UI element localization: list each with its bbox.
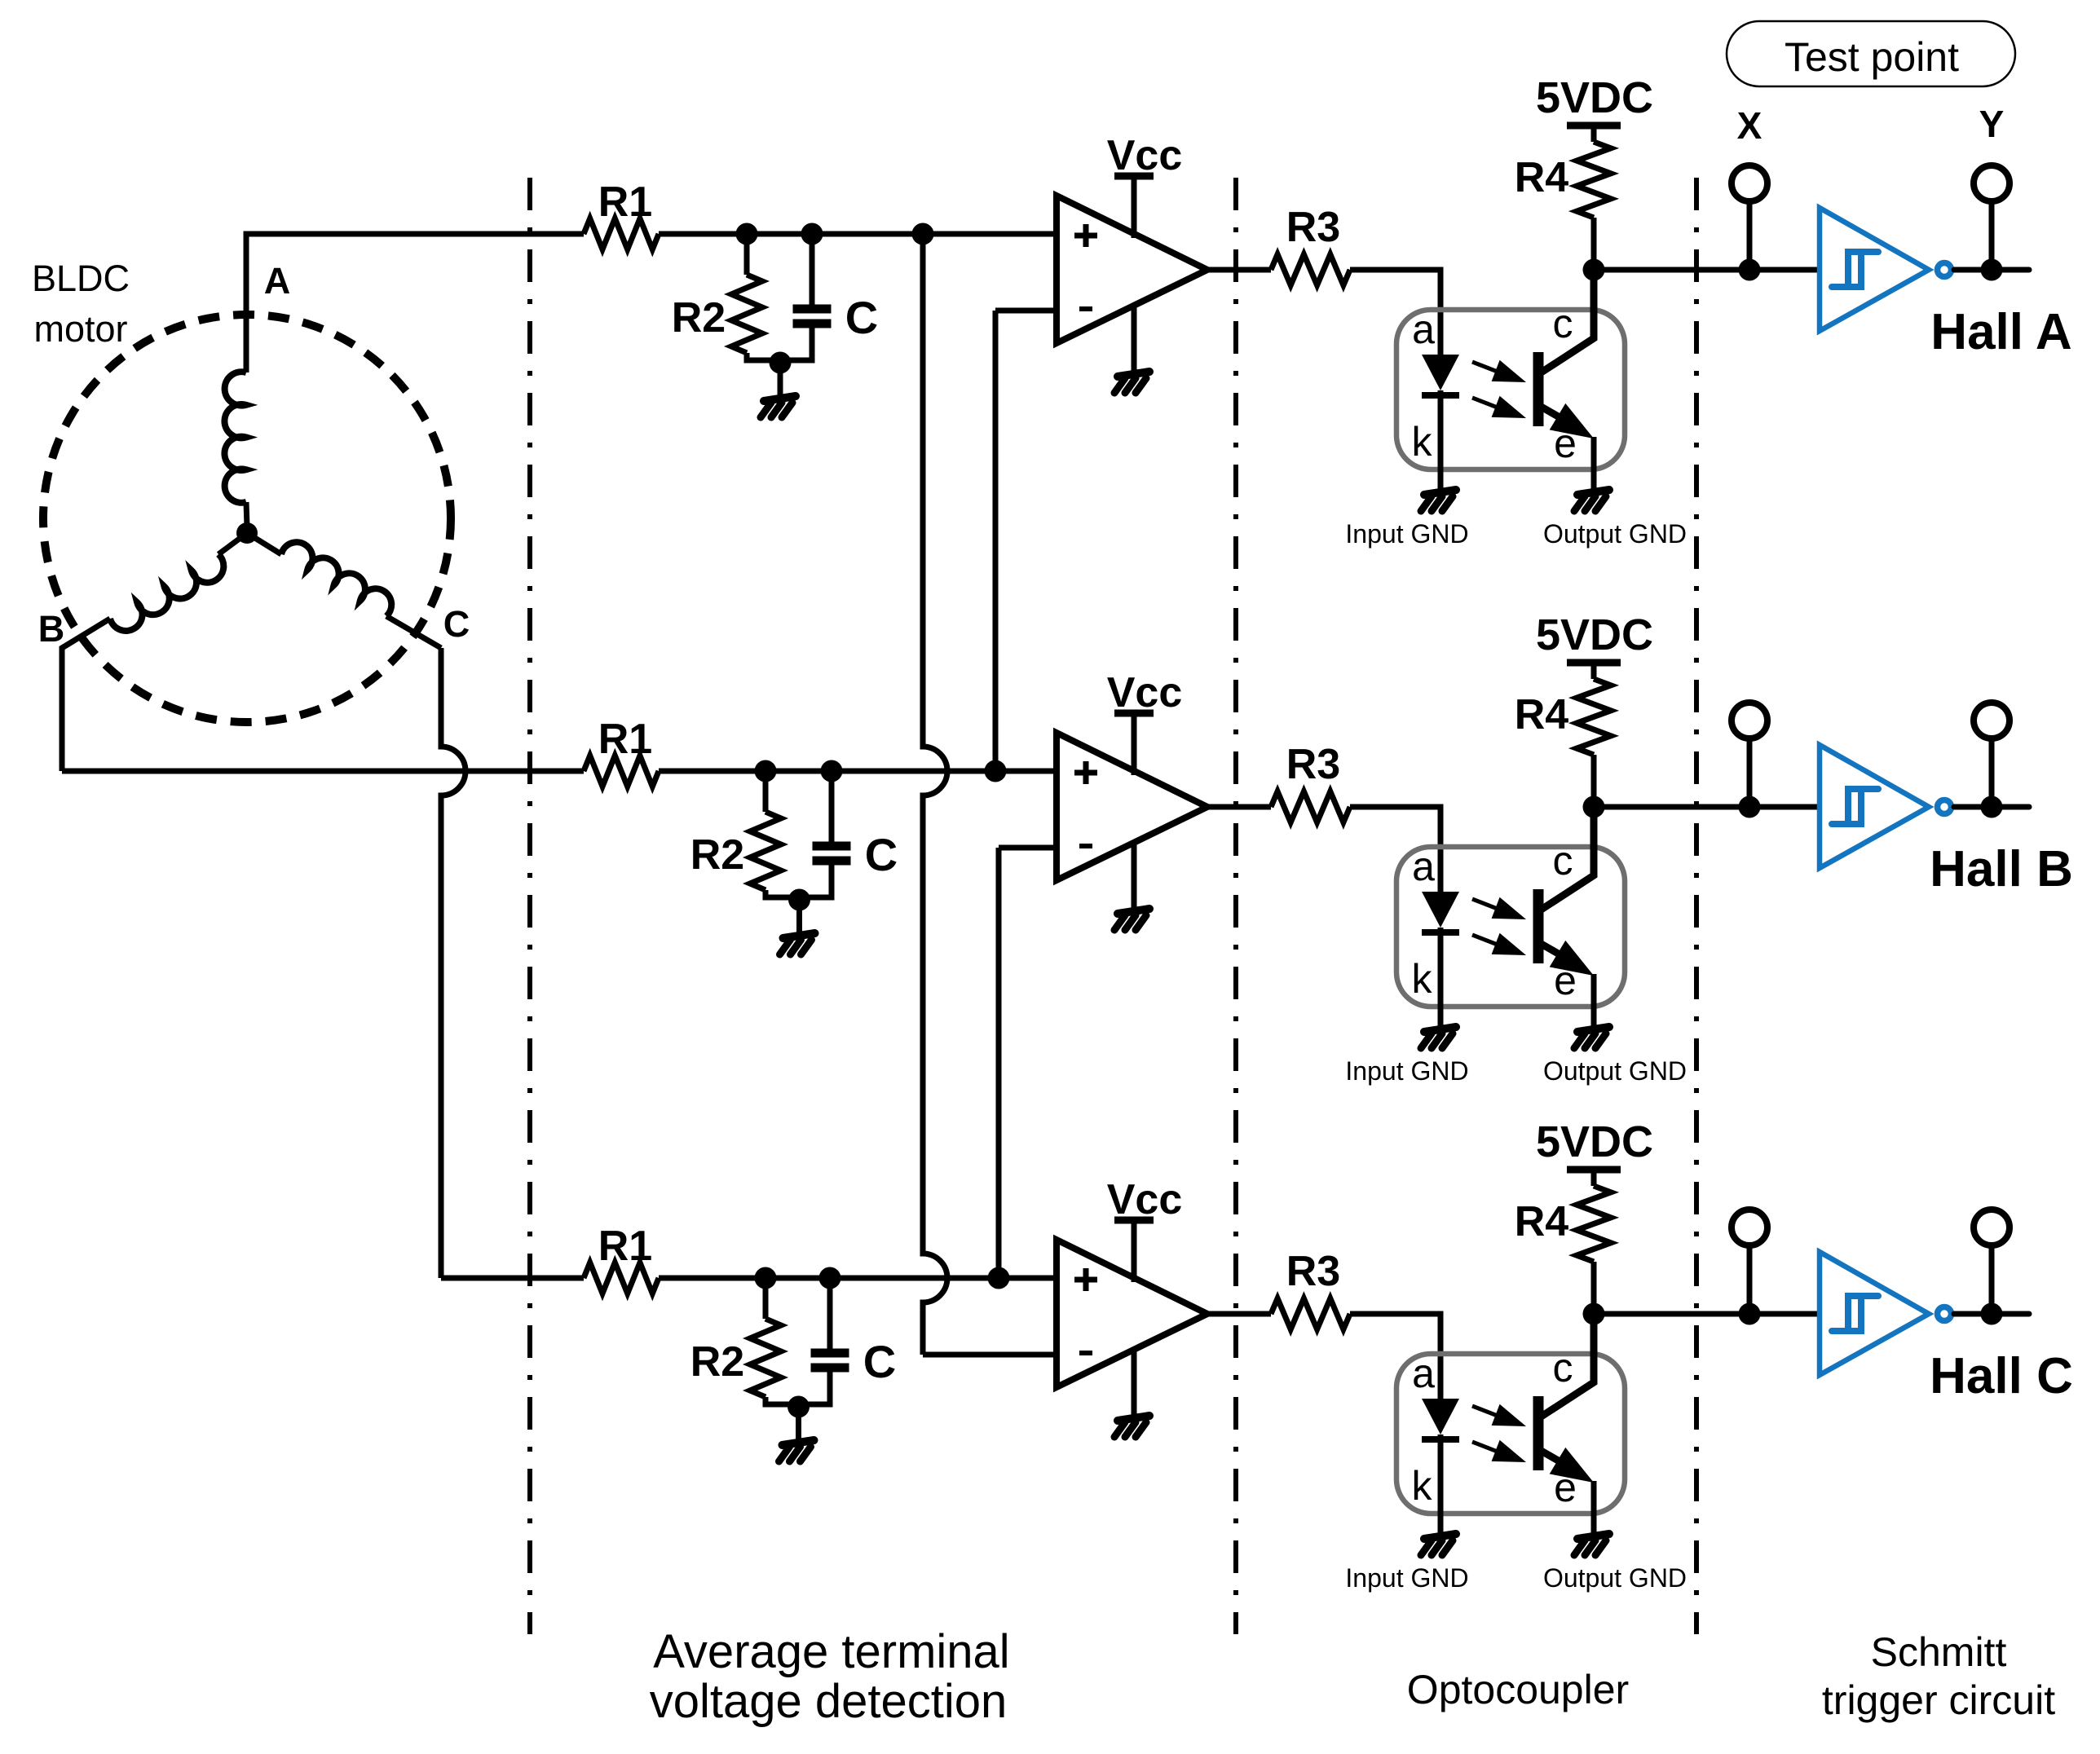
svg-text:Input GND: Input GND [1345,1563,1468,1593]
svg-text:C: C [863,1336,896,1387]
svg-text:R4: R4 [1515,1198,1569,1245]
svg-text:k: k [1412,956,1433,1002]
svg-text:Optocoupler: Optocoupler [1407,1667,1629,1712]
svg-text:a: a [1412,844,1435,889]
svg-text:R3: R3 [1286,741,1340,788]
svg-text:R3: R3 [1286,204,1340,251]
svg-text:c: c [1553,301,1573,346]
svg-text:e: e [1554,1465,1577,1510]
svg-text:Input GND: Input GND [1345,519,1468,549]
svg-text:Vcc: Vcc [1107,132,1183,179]
svg-text:R1: R1 [598,716,652,763]
svg-text:C: C [443,603,470,645]
svg-text:Hall C: Hall C [1930,1348,2073,1404]
svg-text:Vcc: Vcc [1107,669,1183,716]
svg-text:5VDC: 5VDC [1536,1117,1653,1166]
svg-text:motor: motor [33,308,127,350]
svg-text:Average terminal: Average terminal [653,1625,1009,1678]
svg-text:R1: R1 [598,178,652,226]
svg-text:Vcc: Vcc [1107,1176,1183,1223]
svg-text:a: a [1412,1351,1435,1396]
svg-text:e: e [1554,958,1577,1003]
svg-text:R2: R2 [690,1338,744,1386]
svg-text:voltage detection: voltage detection [650,1675,1008,1728]
svg-text:5VDC: 5VDC [1536,73,1653,122]
svg-text:trigger circuit: trigger circuit [1822,1677,2055,1723]
svg-text:Input GND: Input GND [1345,1056,1468,1086]
svg-text:Y: Y [1979,103,2005,145]
svg-text:C: C [845,292,878,343]
svg-text:Schmitt: Schmitt [1871,1629,2007,1675]
svg-text:e: e [1554,421,1577,466]
svg-text:Hall B: Hall B [1930,841,2073,897]
svg-text:A: A [264,260,291,302]
svg-text:Output GND: Output GND [1543,519,1687,549]
svg-text:k: k [1412,419,1433,465]
svg-text:c: c [1553,838,1573,884]
svg-text:Test point: Test point [1785,34,1959,80]
svg-text:BLDC: BLDC [32,258,130,299]
svg-text:R2: R2 [690,831,744,879]
svg-text:Hall A: Hall A [1930,304,2071,360]
svg-text:R4: R4 [1515,154,1569,201]
svg-text:R4: R4 [1515,691,1569,738]
svg-text:R3: R3 [1286,1248,1340,1295]
svg-text:a: a [1412,306,1435,352]
svg-text:5VDC: 5VDC [1536,610,1653,659]
svg-text:Output GND: Output GND [1543,1056,1687,1086]
svg-text:c: c [1553,1345,1573,1390]
svg-text:X: X [1737,104,1762,147]
svg-text:Output GND: Output GND [1543,1563,1687,1593]
svg-text:B: B [38,608,65,650]
svg-text:k: k [1412,1463,1433,1509]
svg-text:C: C [865,829,898,880]
svg-text:R2: R2 [672,294,726,342]
svg-text:R1: R1 [598,1223,652,1270]
